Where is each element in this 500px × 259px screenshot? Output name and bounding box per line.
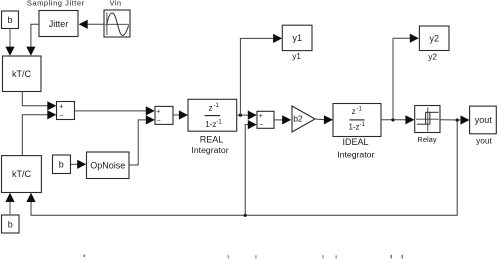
block b3 — [2, 215, 20, 233]
svg-text:b: b — [8, 220, 13, 230]
svg-text:y1: y1 — [292, 33, 302, 43]
arrowhead into REAL integrator — [179, 110, 188, 119]
faint caption remnants at bottom — [84, 255, 404, 259]
svg-text:1-z: 1-z — [348, 122, 359, 131]
block y2 outport — [419, 26, 449, 51]
svg-text:-1: -1 — [360, 122, 366, 128]
arrowhead into sum3 minus — [248, 120, 257, 129]
wire gain b2 to IDEAL integrator — [315, 118, 325, 121]
block Relay — [415, 106, 440, 133]
svg-text:Integrator: Integrator — [191, 145, 228, 155]
block kT/C2 — [2, 156, 42, 193]
arrowhead into OpNoise — [77, 160, 86, 169]
junction node after Relay — [456, 119, 459, 122]
svg-text:+: + — [59, 104, 63, 111]
svg-text:y1: y1 — [292, 52, 301, 61]
svg-text:−: − — [59, 112, 63, 119]
label Relay — [417, 135, 436, 144]
block b noise gain — [53, 155, 71, 174]
svg-text:-1: -1 — [216, 120, 222, 126]
arrowhead into kT/C1 top (from b1) — [5, 47, 14, 56]
feedback wire Relay to kT/C2 — [31, 120, 457, 215]
wire tap up to y2 — [393, 38, 411, 120]
arrowhead into y2 — [410, 34, 419, 43]
block kT/C1 — [3, 56, 42, 92]
sum block sum3 — [257, 111, 274, 129]
block yout outport — [470, 106, 497, 134]
svg-text:b2: b2 — [293, 114, 303, 124]
svg-text:-1: -1 — [357, 106, 363, 112]
svg-text:1-z: 1-z — [205, 120, 216, 129]
arrowhead into sum3 plus — [248, 111, 257, 120]
svg-text:b: b — [7, 15, 12, 25]
block b1 — [2, 11, 19, 29]
svg-text:y2: y2 — [429, 34, 439, 44]
wire b to OpNoise — [71, 163, 79, 165]
wire kT/C2 to sum1 minus — [22, 115, 48, 156]
arrowhead into IDEAL integrator — [324, 115, 333, 124]
svg-text:+: + — [259, 113, 263, 120]
junction node after REAL integrator — [239, 114, 242, 117]
arrowhead into sum2 minus — [146, 115, 155, 124]
wire REAL integrator to sum3 plus — [237, 114, 249, 116]
sum block sum2 — [155, 106, 173, 124]
svg-text:b: b — [59, 160, 64, 170]
arrowhead into sum1 plus — [47, 101, 56, 110]
svg-text:kT/C: kT/C — [12, 169, 31, 179]
svg-text:Sampling Jitter: Sampling Jitter — [27, 0, 85, 7]
block y1 outport — [282, 25, 312, 50]
svg-text:Vin: Vin — [110, 0, 122, 7]
arrowhead into sum2 plus — [146, 106, 155, 115]
junction node after IDEAL integrator — [391, 118, 394, 121]
block REAL integrator U1 — [188, 99, 237, 131]
label y2 — [428, 52, 437, 61]
feedback tap to sum3 minus — [245, 125, 248, 216]
label Sampling Jitter — [27, 0, 85, 7]
label REAL — [200, 134, 224, 144]
wire Vin to Jitter — [87, 23, 104, 25]
block OpNoise — [87, 152, 130, 179]
svg-text:Relay: Relay — [417, 135, 436, 144]
wire OpNoise to sum2 minus — [129, 120, 147, 165]
svg-text:Integrator: Integrator — [337, 149, 374, 159]
arrowhead into kT/C2 bottom (feedback) — [26, 193, 35, 202]
sum block sum1 — [57, 102, 75, 120]
wire b1 to kT/C1 — [9, 29, 11, 49]
wire tap up to y1 — [240, 38, 274, 115]
svg-text:y2: y2 — [428, 52, 437, 61]
arrowhead into kT/C2 bottom (from b3) — [5, 193, 14, 202]
svg-text:OpNoise: OpNoise — [90, 160, 125, 170]
svg-text:IDEAL: IDEAL — [342, 137, 368, 147]
label Vin — [110, 0, 122, 7]
svg-text:z: z — [209, 103, 213, 112]
svg-text:−: − — [157, 118, 161, 125]
arrowhead into gain b2 — [282, 115, 291, 124]
svg-text:kT/C: kT/C — [12, 69, 31, 79]
label IDEAL — [342, 137, 368, 147]
svg-text:yout: yout — [475, 115, 493, 125]
label Integrator (IDEAL) — [337, 149, 374, 159]
wire sum3 to gain b2 — [274, 119, 283, 121]
wire IDEAL integrator to Relay — [381, 119, 406, 121]
label y1 — [292, 52, 301, 61]
arrowhead into yout — [461, 115, 470, 124]
block IDEAL integrator U2 — [333, 104, 381, 137]
wire sum2 to REAL integrator — [173, 114, 180, 116]
block Jitter — [39, 11, 78, 37]
wire b3 to kT/C2 — [9, 201, 11, 215]
wire Relay to yout — [440, 119, 462, 121]
label yout — [476, 135, 492, 145]
label Integrator (REAL) — [191, 145, 228, 155]
arrowhead into Relay — [405, 115, 414, 124]
svg-text:z: z — [352, 107, 356, 116]
svg-text:+: + — [156, 109, 160, 116]
wire kT/C1 to sum1 plus — [22, 92, 48, 106]
svg-text:-1: -1 — [214, 103, 220, 109]
svg-text:yout: yout — [476, 135, 492, 145]
block Vin sine source — [104, 10, 130, 37]
svg-text:REAL: REAL — [200, 134, 224, 144]
arrowhead into sum1 minus — [47, 110, 56, 119]
arrowhead into y1 — [273, 34, 282, 43]
arrowhead into kT/C1 top (from Jitter) — [26, 47, 35, 56]
svg-text:−: − — [259, 122, 263, 129]
gain b2 triangle — [292, 106, 315, 132]
wire sum1 to sum2 plus — [75, 110, 147, 112]
svg-text:Jitter: Jitter — [49, 19, 69, 29]
junction node on feedback wire — [244, 214, 247, 217]
wire Jitter to kT/C1 — [31, 24, 39, 48]
arrowhead into Jitter right — [79, 20, 88, 29]
